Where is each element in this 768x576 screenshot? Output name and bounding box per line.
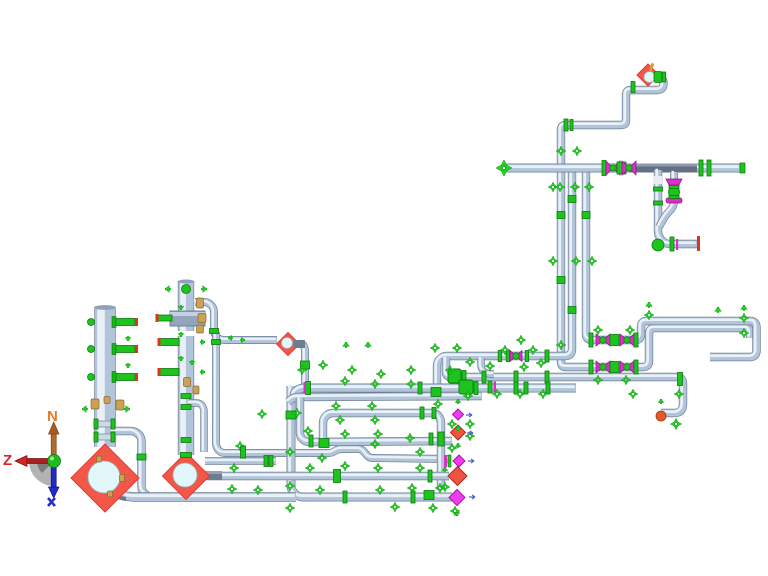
- flange runA: [525, 351, 529, 362]
- branch arm manifold left: [158, 315, 172, 321]
- flow marker 21: [500, 345, 510, 355]
- tan c2: [197, 298, 204, 308]
- flow marker 31: [340, 376, 350, 386]
- D1 outlet dark elbow: [107, 484, 126, 501]
- flow marker 52: [235, 441, 245, 451]
- arrow c2: [178, 332, 184, 337]
- tan valve c1: [116, 400, 124, 410]
- flow marker 2: [570, 182, 580, 192]
- arrow c2 r: [200, 339, 205, 345]
- flange c1: [111, 432, 115, 442]
- flow marker 12: [674, 389, 684, 399]
- flow marker 29: [318, 360, 328, 370]
- arrow c1 left: [82, 406, 88, 413]
- valve runA: [510, 351, 522, 362]
- axis X arrow: [51, 465, 56, 488]
- blue mini arrow: [467, 431, 473, 435]
- flange: [589, 360, 593, 374]
- tan tick: [649, 63, 655, 72]
- flange: [707, 160, 711, 176]
- flange c1: [111, 419, 115, 429]
- branch arm column1 y377: [115, 374, 135, 381]
- tan c2: [184, 378, 191, 387]
- flange c2 lower: [181, 438, 191, 443]
- tan c2: [193, 386, 199, 394]
- instrument diamond D1: [71, 444, 139, 512]
- white gap column2: [178, 331, 195, 336]
- magenta ring R1: [304, 382, 307, 394]
- flow marker 76: [572, 146, 582, 156]
- flow marker 77: [556, 146, 566, 156]
- flow marker 73: [450, 506, 460, 516]
- arrow c2: [189, 360, 195, 365]
- pipe header y168: [504, 167, 740, 168]
- flow marker 75: [285, 503, 295, 513]
- flow marker 20: [485, 361, 495, 371]
- axis origin ball: [48, 455, 61, 468]
- pipe drop behind D2: [188, 402, 204, 452]
- flange R1: [546, 382, 550, 394]
- collar on vertical x291: [286, 411, 296, 419]
- pipe branch right S-curve: [658, 171, 674, 227]
- arrow c1: [125, 363, 131, 368]
- flange R415: [420, 407, 424, 419]
- valve on D3 feed: [301, 361, 310, 369]
- flange R440: [429, 433, 433, 445]
- flange: [570, 120, 573, 131]
- flange run377: [482, 371, 486, 383]
- pipe R497 from D1: [112, 485, 296, 497]
- manifold block on column 2: [170, 311, 205, 326]
- flange small: [654, 187, 663, 191]
- flange vert: [670, 237, 674, 251]
- orange ball end: [656, 411, 666, 421]
- flange: [669, 186, 679, 189]
- flow marker 54: [317, 453, 327, 463]
- flange R1 left: [418, 382, 422, 394]
- arrow: [343, 342, 350, 348]
- flange R1: [514, 382, 518, 394]
- flow marker 37: [433, 399, 443, 409]
- pipe drop to R452: [215, 331, 450, 459]
- flow marker 40: [515, 389, 525, 399]
- arrow c2: [178, 356, 184, 361]
- flow marker 41: [538, 389, 548, 399]
- arrow nr diamond: [442, 467, 448, 472]
- left knob column1: [88, 374, 95, 381]
- pipe column 1 (large riser): [101, 307, 105, 447]
- pipe vertical C into run A: [436, 169, 572, 398]
- flange R440 left: [309, 435, 313, 447]
- gate valve magenta: [620, 361, 634, 373]
- flange R497 tee: [424, 491, 434, 500]
- flange D2 inlet: [181, 453, 192, 458]
- arrow ball: [658, 399, 664, 404]
- flow marker 64: [227, 484, 237, 494]
- blue mini arrow: [468, 459, 474, 463]
- flange runA: [498, 351, 502, 362]
- flow marker 55: [370, 439, 380, 449]
- flow marker 60: [340, 461, 350, 471]
- flange: [699, 160, 703, 176]
- magenta sliver: [676, 239, 678, 250]
- flange: [474, 382, 478, 395]
- flow marker 3: [584, 182, 594, 192]
- flow marker 36: [367, 401, 377, 411]
- tan c2: [198, 314, 206, 323]
- arrow nr diamond: [454, 511, 460, 516]
- flange: [602, 161, 606, 176]
- pipe run1 and outer top loop: [585, 169, 757, 357]
- flow marker 32: [370, 379, 380, 389]
- flow marker ball: [670, 418, 681, 429]
- arrow: [228, 335, 233, 341]
- pipe column 2 riser: [183, 281, 186, 455]
- axis triad: [3, 408, 61, 506]
- flow marker 57: [447, 443, 457, 453]
- arrow loop: [715, 307, 722, 313]
- tan bit D1: [97, 456, 102, 462]
- arrow nr diamond: [455, 426, 461, 431]
- pipe run R1: [293, 387, 576, 398]
- tan valve c1: [104, 397, 110, 404]
- branch arm column1 y349: [115, 346, 135, 353]
- pipe run R476 from D2: [195, 475, 449, 476]
- flow marker 11: [739, 328, 749, 338]
- flow marker big: [496, 160, 512, 176]
- valve stack magenta-green: [666, 179, 682, 185]
- flange: [662, 72, 666, 82]
- blue mini arrow: [469, 495, 475, 499]
- pipe run R2: [287, 395, 482, 402]
- arrow c1 right: [124, 406, 130, 413]
- big valve run377: [448, 369, 461, 383]
- green pair: [269, 456, 273, 467]
- flange run377: [514, 371, 518, 383]
- valve at top diamond: [654, 72, 662, 83]
- flow marker 22: [528, 345, 538, 355]
- branch arm column1 y322: [115, 319, 135, 326]
- pipe small U connector runA-run377: [480, 357, 494, 374]
- flange on branch: [210, 329, 219, 334]
- flange R497: [343, 491, 347, 503]
- flange c1: [94, 432, 98, 442]
- flow marker 30: [297, 365, 307, 375]
- flow marker 14: [593, 325, 603, 335]
- flow marker 25: [430, 343, 440, 353]
- pipe run R415 loop: [322, 412, 441, 490]
- column 1 top cap: [94, 305, 116, 310]
- tan c2: [197, 325, 204, 333]
- pipe vertical x300 to R440: [299, 397, 452, 442]
- flow marker 50: [405, 433, 415, 443]
- dark pipe section on header: [630, 164, 697, 173]
- axis N arrow: [51, 432, 56, 456]
- flange on U-bend: [631, 82, 635, 93]
- flow marker 74: [465, 419, 475, 429]
- pink diamond end R461: [453, 455, 465, 467]
- pink diamond end R415: [453, 409, 464, 420]
- flow marker 53: [285, 447, 295, 457]
- flow marker 23: [536, 358, 546, 368]
- gate valve magenta: [620, 334, 634, 346]
- branch arm column2 y342: [160, 339, 179, 346]
- flow marker 68: [375, 485, 385, 495]
- flow marker 71: [390, 502, 400, 512]
- orange diamond end R476: [448, 467, 467, 486]
- orange diamond end R440: [451, 425, 466, 440]
- ring on vertical C: [568, 196, 576, 203]
- flange c1: [94, 419, 98, 429]
- green valve ball: [669, 187, 680, 198]
- left knob column1: [88, 319, 95, 326]
- flange R1: [306, 382, 311, 395]
- flange R497: [411, 491, 415, 503]
- white pipe gap: [653, 176, 662, 184]
- flow marker 35: [331, 401, 341, 411]
- flow marker 63: [440, 482, 450, 492]
- flow marker 38: [463, 391, 473, 401]
- flange R476: [428, 470, 432, 482]
- ring on vertical A: [557, 212, 565, 219]
- flange: [634, 360, 638, 374]
- instrument diamond top: [637, 64, 659, 86]
- flange band column1: [95, 421, 115, 427]
- pipe D3 outlet drop: [294, 343, 305, 386]
- gate valve: [606, 161, 620, 175]
- flow marker 4: [548, 256, 558, 266]
- flow marker 6: [587, 256, 597, 266]
- flow marker 10: [739, 313, 749, 323]
- flow marker 44: [335, 415, 345, 425]
- flow marker 13: [628, 389, 638, 399]
- flange band column1b: [95, 434, 115, 440]
- flow marker 58: [229, 463, 239, 473]
- flange small: [654, 201, 663, 205]
- flange c2: [181, 394, 191, 399]
- green pair y461: [264, 456, 268, 467]
- green valve R476: [334, 470, 341, 483]
- pipe branch left under header: [657, 169, 697, 244]
- gate valve magenta: [596, 361, 610, 373]
- green valve R452: [241, 446, 246, 458]
- flow marker 56: [415, 447, 425, 457]
- left knob column1: [88, 346, 95, 353]
- flow marker 27: [376, 369, 386, 379]
- magenta ring R461: [444, 455, 447, 467]
- arrow: [741, 305, 748, 311]
- green end tip header: [740, 163, 745, 173]
- flow marker 51: [465, 431, 475, 441]
- flow marker 16: [593, 375, 603, 385]
- pipe run y377 to drop leg: [445, 357, 683, 413]
- pipe short run y461: [204, 460, 276, 461]
- tan bit D1: [120, 475, 125, 482]
- red end bar: [697, 236, 700, 251]
- tan bit D1: [108, 491, 113, 497]
- instrument diamond D2: [163, 453, 210, 500]
- flange pair top left: [564, 119, 568, 131]
- flow marker 39: [492, 389, 502, 399]
- arrow c1: [125, 336, 131, 341]
- column 2 top cap: [178, 280, 194, 284]
- flange R415 r: [432, 408, 436, 419]
- flow marker 7: [516, 335, 526, 345]
- flange R1 tee: [431, 388, 441, 397]
- flange run377: [678, 373, 683, 386]
- ring on vertical C low: [568, 307, 576, 314]
- flow marker 66: [285, 481, 295, 491]
- flow marker 61: [373, 463, 383, 473]
- flange: [462, 371, 466, 384]
- flow marker 47: [303, 426, 313, 436]
- flow marker 65: [253, 485, 263, 495]
- flange runA: [545, 350, 549, 362]
- flow marker 48: [340, 429, 350, 439]
- arrow c2: [201, 286, 207, 293]
- flange: [589, 333, 593, 347]
- flow marker 1: [555, 182, 565, 192]
- flow marker 5: [571, 256, 581, 266]
- instrument diamond D3: [277, 333, 300, 356]
- flow marker 19: [465, 357, 475, 367]
- green marker column2 top: [182, 285, 191, 294]
- tan valve c1: [91, 399, 99, 409]
- flow marker 33: [406, 379, 416, 389]
- ring R452 vert: [212, 340, 221, 345]
- arrow nr diamond: [455, 399, 461, 404]
- flow marker 62: [415, 463, 425, 473]
- flow marker 8: [519, 362, 529, 372]
- axis Z arrow: [25, 459, 50, 464]
- flange R440 big: [438, 432, 444, 446]
- arrow: [365, 342, 372, 348]
- arrow nr diamond: [455, 443, 461, 448]
- flow marker 69: [407, 483, 417, 493]
- ring on vertical A low: [557, 277, 565, 284]
- pipe column1 branch to R497: [111, 430, 149, 497]
- gate valve: [622, 161, 636, 175]
- flange: [634, 333, 638, 347]
- flow marker 9: [644, 310, 654, 320]
- arrow: [646, 302, 653, 308]
- flow marker 45: [370, 415, 380, 425]
- arrow c2: [165, 286, 171, 293]
- flange tee R440: [319, 439, 329, 448]
- gate valve magenta: [596, 334, 610, 346]
- svg-text:Z: Z: [3, 452, 12, 469]
- svg-text:N: N: [47, 408, 58, 425]
- flow marker 18: [556, 340, 566, 350]
- flow marker 46: [447, 419, 457, 429]
- branch arm column2 y372: [160, 369, 179, 376]
- arrow c2: [178, 305, 184, 310]
- pipe manifold branch to D3: [194, 301, 277, 340]
- flange: [669, 196, 679, 199]
- D3 outlet stub: [294, 340, 305, 348]
- flow marker 67: [315, 485, 325, 495]
- flow marker 24: [452, 343, 462, 353]
- magenta diamond end R497: [449, 490, 465, 506]
- flow marker 26: [406, 365, 416, 375]
- flow marker 34: [445, 365, 455, 375]
- flow marker 49: [373, 429, 383, 439]
- flange runA: [506, 351, 510, 362]
- flow marker 15: [625, 325, 635, 335]
- arrow c2 r: [200, 369, 205, 375]
- flow marker 28: [347, 365, 357, 375]
- flange R1: [488, 381, 492, 393]
- flange c2: [181, 405, 191, 410]
- ring on vertical B: [582, 212, 590, 219]
- flow marker 59: [305, 463, 315, 473]
- dark stub at D2 outlet: [196, 471, 222, 480]
- flange run377: [545, 371, 549, 383]
- flow marker 72: [428, 503, 438, 513]
- arrow: [240, 337, 245, 343]
- blue mini arrow: [466, 413, 472, 417]
- pipe top U-bend and header to hub: [560, 76, 750, 367]
- flange on c1 branch: [137, 454, 146, 460]
- flow marker 70: [435, 483, 445, 493]
- flow marker 0: [548, 182, 558, 192]
- big valve R1: [459, 380, 473, 394]
- green elbow ball: [652, 239, 664, 251]
- flow marker 17: [621, 375, 631, 385]
- flow marker 43: [292, 408, 302, 418]
- flow marker 42: [257, 409, 267, 419]
- flange R1: [524, 382, 528, 394]
- pipe vertical x291 to R497: [290, 385, 452, 497]
